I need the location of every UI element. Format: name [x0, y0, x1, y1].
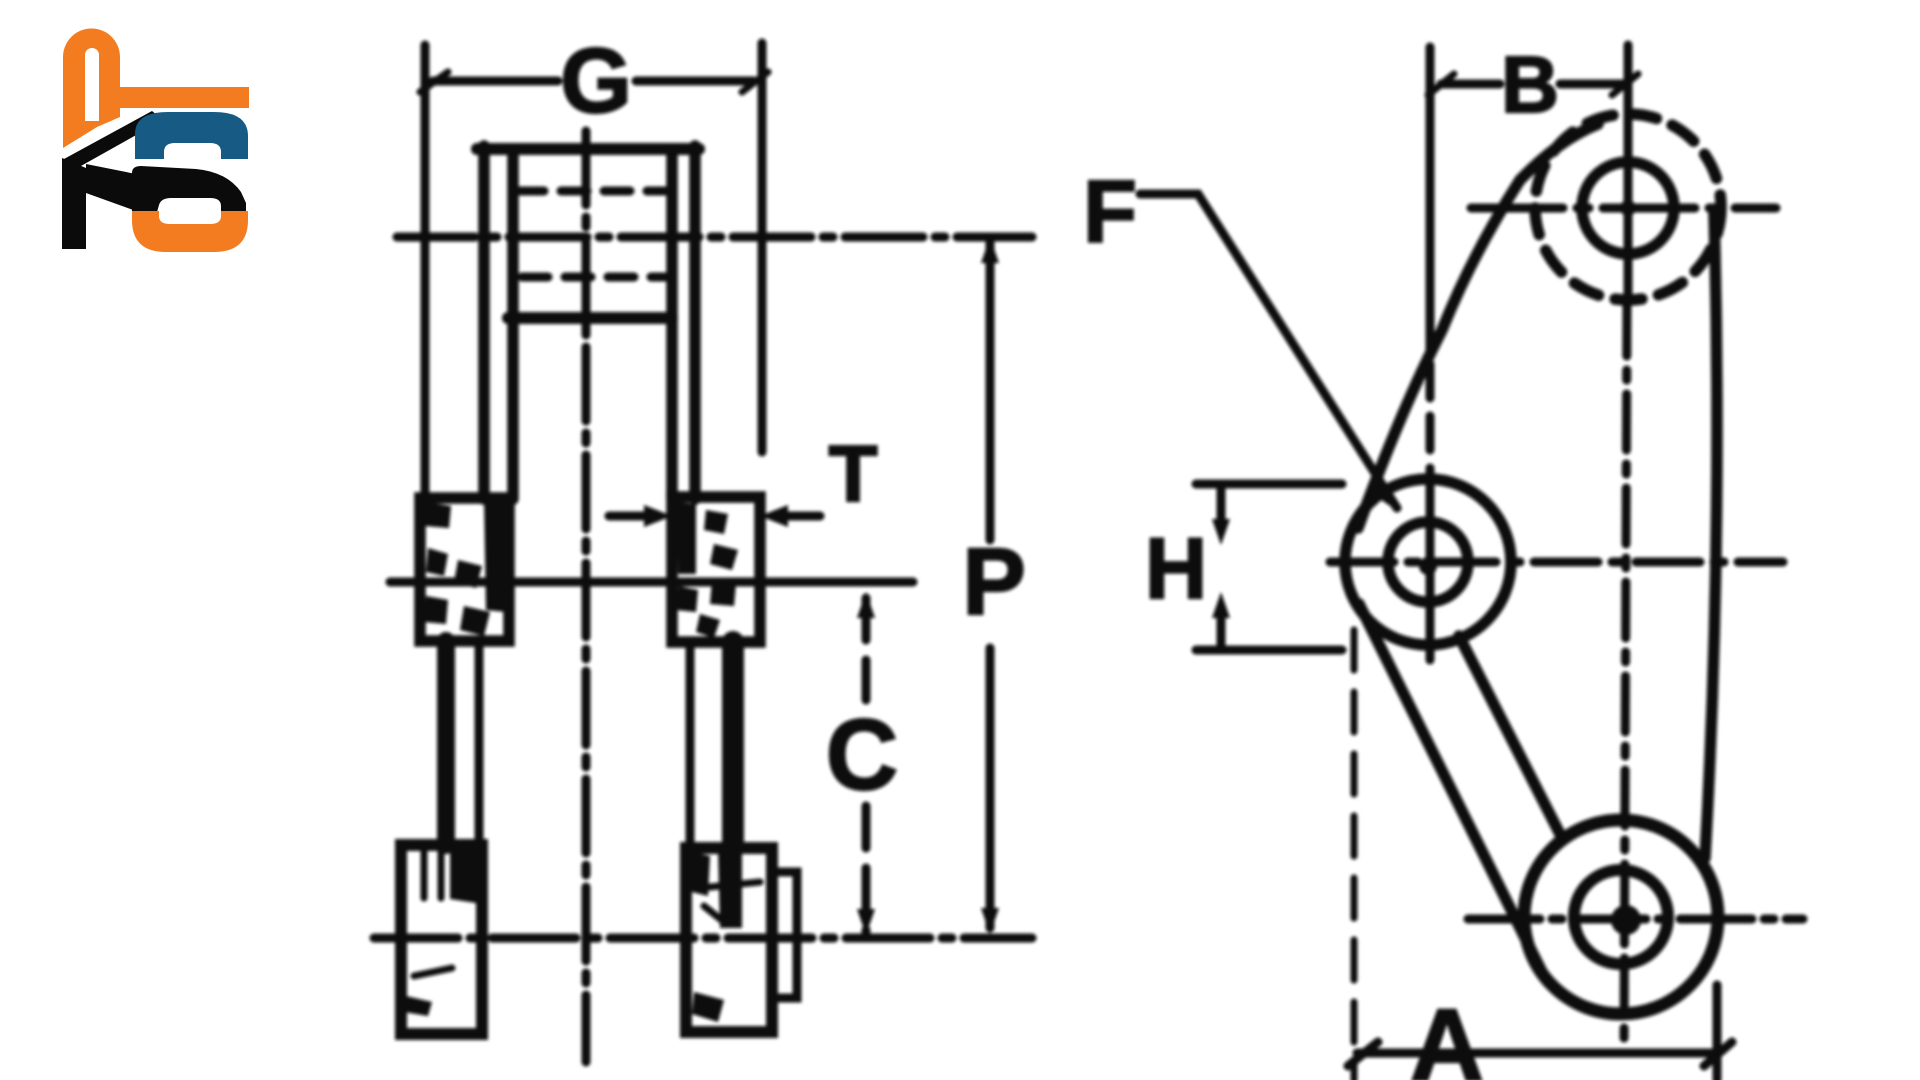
dimension B tick right: [1612, 74, 1638, 95]
dimension G tick left: [420, 72, 448, 92]
dimension B line: [1441, 80, 1625, 89]
pin plate outer right edge: [689, 146, 701, 499]
dimension G extension line left: [421, 45, 430, 495]
bottom hole center dot: [1611, 905, 1641, 935]
left bottom block: [401, 845, 482, 1034]
horizontal centerline top: [397, 233, 1032, 242]
plate strap edge outer: [1359, 604, 1542, 972]
dimension G tick right: [742, 72, 768, 92]
dimension A tick right: [1704, 1042, 1732, 1066]
right offset block: [672, 497, 760, 642]
pitch centerline top-bottom holes: [1624, 300, 1627, 1046]
right offset block texture: [676, 502, 738, 638]
logo black S middle band: [132, 166, 246, 212]
pin plate inner right edge: [666, 149, 678, 499]
logo black K leg: [86, 164, 136, 211]
vertical centerline: [582, 131, 591, 1062]
dimension G extension line right: [758, 43, 767, 452]
plate edge right: [1705, 213, 1717, 858]
middle hole center dot: [1419, 557, 1437, 575]
top hole roller circle: [1582, 162, 1674, 254]
left offset block: [420, 498, 509, 641]
dimension A line: [1357, 1049, 1717, 1058]
svg-text:T: T: [829, 429, 878, 518]
svg-text:H: H: [1145, 521, 1207, 617]
top hole vertical centerline: [1624, 45, 1633, 300]
dimension A extension line left: [1351, 630, 1358, 1080]
middle hole horizontal centerline: [1330, 558, 1783, 567]
pin plate outer left edge: [478, 146, 490, 499]
dimension P line with arrows: [986, 243, 995, 540]
middle hole outer circle: [1345, 479, 1511, 645]
svg-text:B: B: [1501, 40, 1559, 129]
right bottom block tab: [772, 872, 797, 998]
dimension H bottom line: [1196, 646, 1342, 655]
dimension C extension line with arrows: [857, 592, 875, 618]
plate edge top-left: [1358, 124, 1598, 528]
roller top edge: [477, 143, 699, 155]
top hole clearance dashed circle: [1535, 114, 1721, 300]
logo black K vertical: [62, 158, 86, 249]
dimension T line right segment with arrow: [782, 512, 820, 521]
roller bottom edge: [508, 312, 672, 324]
svg-text:F: F: [1083, 162, 1137, 261]
logo black K upper arm: [64, 111, 163, 171]
svg-text:P: P: [962, 529, 1025, 635]
logo orange S bottom band: [132, 211, 248, 252]
B extension / middle hole vertical centerline: [1426, 47, 1435, 352]
left leg inner line: [475, 641, 484, 845]
dimension B tick left: [1428, 74, 1454, 95]
left bottom block inner marks: [414, 850, 452, 976]
svg-text:A: A: [1410, 988, 1484, 1080]
top hole horizontal centerline: [1471, 204, 1776, 213]
plate strap edge inner: [1459, 636, 1563, 840]
bush hidden line upper: [518, 187, 666, 196]
top hole center dot: [1620, 200, 1636, 216]
svg-text:C: C: [826, 699, 898, 811]
F leader line: [1140, 194, 1397, 508]
logo blue S top band: [135, 112, 248, 159]
dimension H top line: [1196, 480, 1342, 489]
bottom hole inner circle: [1574, 870, 1668, 964]
pin plate inner left edge: [507, 149, 519, 499]
right bottom block: [686, 848, 772, 1032]
right bottom block inner marks: [700, 882, 760, 922]
bottom hole outer circle: [1524, 820, 1718, 1014]
dimension T line left segment with arrow: [609, 512, 650, 521]
dimension A extension line right: [1713, 985, 1722, 1080]
bush hidden line lower: [522, 273, 666, 282]
svg-text:G: G: [560, 30, 632, 132]
bottom hole horizontal centerline: [1468, 915, 1803, 924]
dimension H arrows: [1217, 488, 1226, 522]
logo orange hook and top bar: [63, 29, 249, 149]
dimension G line: [433, 77, 754, 86]
dimension A tick left: [1348, 1042, 1378, 1066]
right leg inner line: [686, 642, 695, 848]
horizontal centerline bottom: [374, 934, 1032, 943]
left offset block texture: [424, 500, 506, 636]
right leg outer line: [722, 642, 744, 848]
middle hole inner circle: [1388, 522, 1468, 602]
reference line at offset bend: [390, 578, 913, 587]
left leg outer line: [437, 641, 455, 845]
